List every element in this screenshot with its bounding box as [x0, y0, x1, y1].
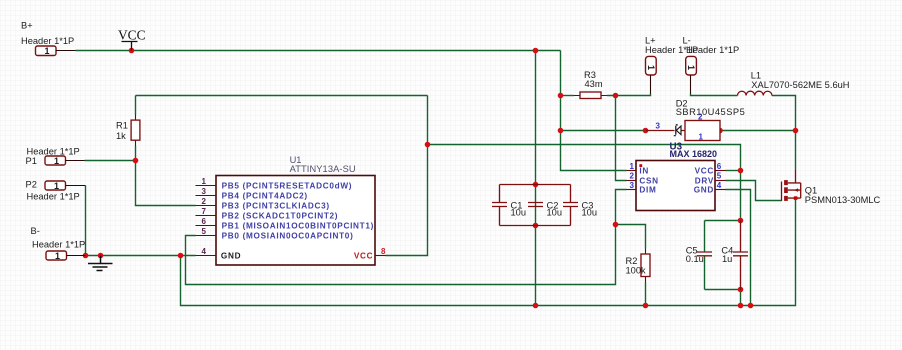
svg-text:VCC: VCC	[118, 28, 146, 43]
wire diode row right	[720, 130, 796, 132]
wire R1 top row to U1 pin8 column	[136, 95, 428, 97]
U1 pin stubs	[196, 186, 386, 256]
wire VCC branch down to caps	[535, 51, 537, 306]
svg-text:2: 2	[202, 197, 207, 206]
node VCC tap	[129, 48, 135, 54]
capacitor C4	[721, 221, 748, 290]
svg-text:L-: L-	[683, 35, 691, 45]
node rail cap branch	[533, 303, 539, 309]
svg-text:4: 4	[202, 247, 207, 256]
wire U1 pin8 vertical	[386, 96, 428, 256]
svg-text:GND: GND	[221, 252, 241, 261]
header B+	[21, 21, 76, 56]
svg-text:1: 1	[55, 251, 60, 261]
svg-text:PSMN013-30MLC: PSMN013-30MLC	[805, 195, 881, 205]
capacitor C5	[686, 245, 712, 263]
svg-text:6: 6	[717, 162, 722, 171]
svg-text:B-: B-	[31, 226, 40, 236]
node diode pin1	[717, 128, 723, 134]
svg-text:0.1u: 0.1u	[686, 254, 704, 264]
U3 pin names	[639, 167, 714, 195]
svg-text:10u: 10u	[547, 208, 563, 218]
op-amp U3	[636, 141, 717, 210]
svg-text:PB4 (PCINT4ADC2): PB4 (PCINT4ADC2)	[222, 192, 308, 201]
node gnd rail tap	[178, 253, 184, 259]
svg-text:8: 8	[381, 247, 386, 256]
node gnd symbol tap	[98, 253, 104, 259]
U3 pin numbers	[630, 162, 722, 190]
node C4 top	[738, 218, 744, 224]
transistor Q1	[782, 170, 881, 205]
wire R1 top lead	[135, 96, 137, 115]
svg-text:PB1 (MISOAIN1OC0BINT0PCINT1): PB1 (MISOAIN1OC0BINT0PCINT1)	[222, 222, 374, 231]
node R3 right	[613, 93, 619, 99]
svg-text:1: 1	[646, 65, 656, 70]
node rail C4	[738, 303, 744, 309]
node diode anode pin3	[643, 128, 649, 134]
wire inductor right to drain column	[772, 96, 796, 171]
node C4 bottom	[738, 287, 744, 293]
node mid VCC tap	[425, 142, 431, 148]
wire bottom ground rail	[181, 200, 796, 306]
wire L- down to inductor row	[691, 94, 738, 96]
svg-text:R1: R1	[116, 121, 128, 131]
node rail U3 gnd	[748, 303, 754, 309]
header L-	[683, 35, 740, 93]
node caps bottom	[533, 223, 539, 229]
wire CSN vertical from R3 right	[616, 96, 627, 181]
wire U3 pin6 stub link	[726, 170, 741, 172]
wire R1 bottom to PB3	[136, 146, 196, 206]
svg-text:SBR10U45SP5: SBR10U45SP5	[676, 107, 746, 117]
svg-text:1: 1	[54, 181, 59, 191]
wire mid VCC row to U3 pin6	[428, 145, 741, 221]
resistor R3	[574, 70, 607, 99]
node caps top	[533, 182, 539, 188]
svg-text:1k: 1k	[116, 131, 126, 141]
svg-text:XAL7070-562ME 5.6uH: XAL7070-562ME 5.6uH	[751, 80, 849, 90]
svg-text:1: 1	[54, 156, 59, 166]
svg-text:P2: P2	[26, 180, 37, 190]
wire U3 GND pin4 down	[726, 190, 751, 306]
svg-text:10u: 10u	[582, 208, 598, 218]
wire caps bottom bus	[500, 225, 571, 227]
wire VIN column to U3 IN	[561, 51, 627, 171]
header P1	[26, 147, 85, 166]
svg-text:6: 6	[202, 217, 207, 226]
wire DRV to gate	[726, 181, 782, 201]
wire C5 C4 top link	[705, 220, 741, 222]
node P2 gnd	[83, 253, 89, 259]
svg-text:PB5 (PCINT5RESETADC0dW): PB5 (PCINT5RESETADC0dW)	[222, 182, 353, 191]
svg-text:7: 7	[202, 207, 207, 216]
svg-text:L+: L+	[645, 35, 656, 45]
op-amp U1	[216, 155, 375, 265]
svg-text:IN: IN	[639, 167, 649, 176]
U3 pin stubs	[627, 171, 726, 190]
svg-text:ATTINY13A-SU: ATTINY13A-SU	[290, 164, 356, 174]
svg-text:PB2 (SCKADC1T0PCINT2): PB2 (SCKADC1T0PCINT2)	[222, 212, 339, 221]
wire caps top bus	[500, 184, 571, 186]
svg-text:Q1: Q1	[805, 186, 817, 196]
U1 pin numbers	[202, 177, 387, 256]
node rail R2	[643, 303, 649, 309]
header B-	[31, 226, 86, 261]
svg-text:VCC: VCC	[354, 252, 373, 261]
svg-text:Header 1*1P: Header 1*1P	[32, 240, 85, 250]
resistor R1	[116, 115, 140, 147]
node diode row left	[558, 128, 564, 134]
wire C5 leads	[704, 221, 706, 290]
svg-text:1: 1	[202, 177, 207, 186]
diode D2	[646, 99, 746, 142]
wire R3 right to L+	[607, 94, 651, 96]
power flag VCC	[118, 28, 146, 51]
wire GND row	[86, 255, 196, 257]
svg-text:CSN: CSN	[639, 176, 658, 185]
wire R2 bottom lead	[645, 283, 647, 306]
svg-text:L1: L1	[751, 71, 761, 81]
node R3 left	[558, 93, 564, 99]
svg-text:3: 3	[656, 122, 661, 131]
svg-text:3: 3	[202, 187, 207, 196]
svg-text:5: 5	[717, 172, 722, 181]
svg-text:R2: R2	[626, 256, 638, 266]
wire R2 top jog	[616, 225, 646, 249]
capacitor C1	[492, 185, 526, 226]
svg-text:4: 4	[717, 181, 722, 190]
U1 pin names	[221, 182, 374, 261]
svg-text:DRV: DRV	[695, 176, 714, 185]
capacitor C3	[563, 185, 597, 226]
capacitor C2	[528, 200, 562, 217]
inductor L1	[738, 71, 850, 96]
node R1 bottom	[133, 158, 139, 164]
U3 pin1 marker	[639, 164, 642, 167]
node DIM R2	[613, 222, 619, 228]
wire top VCC rail	[76, 50, 561, 52]
wire diode row left	[561, 130, 646, 132]
resistor R2	[626, 249, 651, 283]
svg-text:Header 1*1P: Header 1*1P	[21, 36, 74, 46]
wire DIM net with mid rail to PB0	[186, 190, 627, 285]
svg-text:1: 1	[686, 65, 696, 70]
node drain top	[793, 128, 799, 134]
svg-text:1: 1	[45, 46, 50, 56]
svg-text:3: 3	[630, 181, 635, 190]
svg-text:PB3 (PCINT3CLKIADC3): PB3 (PCINT3CLKIADC3)	[222, 202, 330, 211]
svg-text:1u: 1u	[722, 254, 732, 264]
svg-text:10u: 10u	[511, 208, 527, 218]
wire P2 branch	[85, 186, 87, 256]
svg-text:1: 1	[699, 132, 704, 141]
svg-text:PB0 (MOSIAIN0OC0APCINT0): PB0 (MOSIAIN0OC0APCINT0)	[222, 232, 354, 241]
svg-text:Header 1*1P: Header 1*1P	[27, 192, 80, 202]
wire P1 row	[85, 160, 136, 162]
svg-text:5: 5	[202, 227, 207, 236]
svg-text:GND: GND	[694, 186, 714, 195]
svg-text:MAX 16820: MAX 16820	[670, 149, 718, 159]
header L+	[645, 35, 698, 93]
svg-text:2: 2	[698, 113, 703, 122]
svg-text:B+: B+	[21, 21, 33, 31]
svg-text:43m: 43m	[585, 79, 603, 89]
svg-text:100k: 100k	[626, 266, 647, 276]
svg-text:VCC: VCC	[695, 167, 714, 176]
svg-text:1: 1	[630, 162, 635, 171]
svg-text:P1: P1	[26, 156, 37, 166]
header P2	[26, 180, 86, 202]
svg-text:Header 1*1P: Header 1*1P	[686, 45, 739, 55]
wire R3 left	[561, 95, 575, 97]
node cap branch	[533, 48, 539, 54]
svg-text:DIM: DIM	[639, 186, 656, 195]
svg-text:2: 2	[630, 172, 635, 181]
ground	[88, 256, 113, 271]
node U3 pin6	[738, 168, 744, 174]
wire C5 C4 bottom link	[705, 290, 741, 306]
